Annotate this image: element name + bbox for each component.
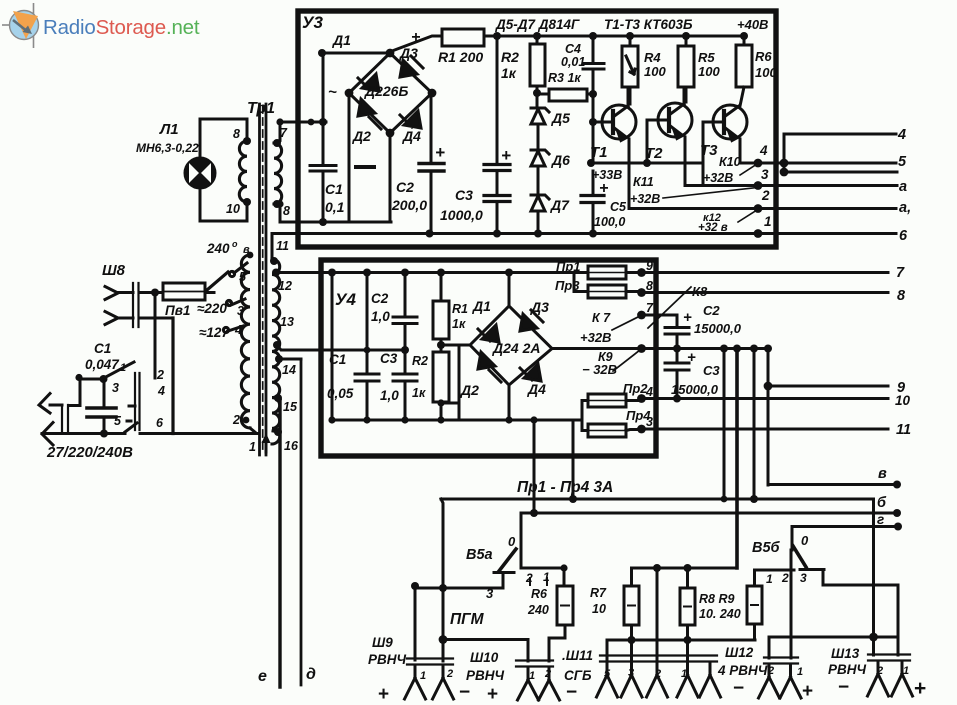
switch slant to 5 [125,423,137,432]
fuse Pr2 [588,394,626,407]
svg-text:о: о [232,239,238,249]
svg-text:240: 240 [527,603,549,617]
pointer K9 [613,350,640,371]
capacitor C2 1,0 [393,317,417,324]
svg-text:СГБ: СГБ [564,668,592,683]
svg-text:5: 5 [114,414,122,428]
junction dots bottom [530,509,538,517]
svg-text:5: 5 [239,270,247,284]
svg-text:е: е [258,668,267,685]
svg-text:Д7: Д7 [550,197,570,213]
connector Sh8 bars [133,283,139,327]
wire lamp loop [200,119,247,221]
svg-text:4: 4 [234,323,242,337]
svg-text:15000,0: 15000,0 [671,382,719,397]
svg-text:С2: С2 [371,291,389,306]
diode D2 [358,99,381,129]
svg-text:−: − [459,682,470,703]
svg-text:2: 2 [761,188,770,203]
connector Sh12 bar [764,658,798,664]
connector Sh9 forks [405,665,426,699]
svg-text:8: 8 [283,204,290,218]
pointer K12 [738,210,757,222]
svg-text:14: 14 [282,363,296,377]
wire R8 leads [686,568,689,660]
svg-text:Д6: Д6 [551,152,570,168]
svg-text:10. 240: 10. 240 [699,607,741,621]
svg-text:К 7: К 7 [592,311,611,325]
svg-text:10: 10 [895,393,911,408]
wire column a [331,273,334,421]
wire pin2 output a, [629,207,896,210]
svg-text:С1: С1 [329,352,346,367]
wire minus rail out [642,347,771,350]
lamp L1 [185,158,216,189]
svg-text:+: + [802,681,813,702]
wire B5b out [823,585,898,655]
connector Sh9 bar [407,659,453,665]
svg-text:11: 11 [276,239,289,253]
svg-text:~: ~ [328,84,337,101]
resistor R5 100 [678,46,694,87]
svg-text:К10: К10 [719,155,741,169]
switch B5a blade [499,549,516,571]
diode D1 U4 [478,325,499,342]
svg-text:МН6,3-0,22: МН6,3-0,22 [136,141,199,155]
svg-text:− 32В: − 32В [582,362,617,377]
bridge U3 diamond [349,53,432,133]
svg-text:Ш10: Ш10 [470,650,499,665]
diode D3 U4 [520,310,543,331]
svg-text:+: + [599,180,608,197]
svg-text:7: 7 [896,265,905,281]
svg-text:Д4: Д4 [527,381,546,397]
svg-text:+: + [501,146,511,165]
svg-text:1: 1 [120,362,126,374]
svg-text:−: − [733,678,744,699]
svg-text:В5б: В5б [752,540,781,556]
svg-text:R3 1к: R3 1к [548,71,581,85]
svg-text:7: 7 [646,301,654,315]
wire R6 bottom to Sh10 [549,625,565,661]
wire rail 513 [521,512,897,515]
wire B5a out [415,587,503,590]
wire out 9 [768,385,888,388]
connector Sh8 fork 1 [105,287,133,300]
wire pin7 to C2 [642,314,678,317]
switch B5a column [520,513,523,568]
svg-text:R5: R5 [698,50,715,65]
junction dots transformer/mains [243,137,251,145]
svg-text:6: 6 [899,228,908,244]
svg-text:2: 2 [525,571,533,585]
svg-text:100: 100 [698,64,720,79]
svg-text:Д4: Д4 [402,128,421,144]
svg-text:RadioStorage.net: RadioStorage.net [43,16,200,39]
connector Sh11 bar [600,656,717,662]
diode D4 U4 [520,364,541,381]
svg-text:+32В: +32В [630,192,660,206]
pointer K10 [740,164,757,175]
wire pin13 to U4 [277,345,405,350]
svg-text:1: 1 [903,665,909,677]
wire selector left column [154,293,157,379]
capacitor C2 15000,0 [665,315,689,334]
svg-text:R1: R1 [452,302,468,316]
resistor R7 10 [624,586,639,625]
wire return loop [441,345,459,420]
svg-text:Пр3: Пр3 [555,278,580,293]
wire bottom interior [332,419,582,422]
capacitor C5 100,0 [581,196,604,203]
svg-text:1к: 1к [412,386,426,400]
svg-text:Л1: Л1 [159,121,179,138]
switch B5a step [494,573,514,589]
svg-text:8: 8 [233,127,240,141]
svg-text:2: 2 [876,665,883,677]
svg-text:Д24 2А: Д24 2А [492,340,540,356]
wire zener chain [537,124,540,234]
switch B5b blade [793,546,806,567]
wire C3 column [496,36,499,234]
svg-text:R8 R9: R8 R9 [699,592,734,606]
wire bridge bottom out [508,385,511,420]
svg-text:16: 16 [284,439,299,453]
wire U4 lead down right [572,421,575,499]
transformer core [260,104,267,455]
svg-text:0,05: 0,05 [327,386,354,401]
svg-text:Ш13: Ш13 [831,646,860,661]
svg-text:Д226Б: Д226Б [364,83,408,99]
svg-text:РВНЧ: РВНЧ [466,668,505,683]
block U3 box [298,11,776,247]
wire pin7 to bridge [278,122,326,143]
svg-text:1к: 1к [452,317,466,331]
pointer K11 [663,188,757,199]
wire top rail +40V [484,35,744,38]
wire pin4/5 output [740,162,896,165]
svg-text:0,1: 0,1 [325,199,345,215]
wire C4 column / base line [592,36,595,234]
wire base rail +33V [591,162,700,165]
svg-text:100: 100 [644,64,666,79]
svg-text:−: − [838,677,849,698]
wire AC top [322,52,390,55]
svg-text:Д5-Д7 Д814Г: Д5-Д7 Д814Г [495,17,580,32]
svg-text:0,047: 0,047 [85,357,120,372]
svg-text:В5а: В5а [466,547,493,563]
wire fuse feed column [573,273,576,292]
svg-text:3: 3 [112,381,119,395]
wire U4 top rail [321,271,574,274]
resistor R6 100 [736,45,752,87]
svg-text:8: 8 [897,288,906,304]
svg-text:9: 9 [646,259,653,273]
svg-text:R6: R6 [755,49,772,64]
capacitor C3 1000,0 [484,165,510,202]
svg-text:Ш8: Ш8 [102,262,126,279]
svg-text:в: в [243,244,250,256]
wire bridge top to R1 [392,36,442,51]
svg-text:R7: R7 [590,586,607,600]
svg-text:100,0: 100,0 [594,215,625,229]
svg-text:в: в [878,466,887,482]
svg-text:б: б [877,495,887,511]
svg-text:Д2: Д2 [460,382,479,398]
mains connector bars [62,405,68,432]
svg-text:+32В: +32В [703,171,733,185]
svg-text:3: 3 [646,415,653,429]
svg-text:−: − [566,682,577,703]
wire Pr rail 499 [441,498,874,501]
wire 639 Sh9-Sh10 [443,640,528,662]
winding 8-10 primary lamp [239,141,247,202]
capacitor C2 200,0 [419,164,444,172]
connector Sh11 forks [597,662,618,697]
svg-text:Ш9: Ш9 [372,635,393,650]
svg-text:1к: 1к [501,65,517,81]
svg-text:7: 7 [280,126,288,140]
svg-text:а,: а, [899,200,911,216]
svg-text:≈220: ≈220 [197,301,227,316]
wire R9 leads [753,570,756,640]
svg-text:+32В: +32В [580,330,611,345]
capacitor C1 0,047 [103,379,106,434]
svg-text:+: + [687,349,696,366]
svg-text:С3: С3 [703,363,720,378]
switch slider bars [135,373,140,430]
svg-text:Т1: Т1 [590,144,608,161]
minus sign in bridge box [356,165,374,169]
svg-text:10: 10 [226,202,240,216]
winding secondary 11-16 lower right [272,259,280,444]
svg-text:Тр1: Тр1 [247,100,275,117]
junction dots U3 [318,49,326,57]
wire C1 column [322,53,325,222]
wire top rail 568 [632,567,738,570]
capacitor C1 0,1 [310,166,336,172]
wire T3 base [702,122,705,186]
svg-text:10: 10 [592,602,606,616]
svg-text:15: 15 [283,400,298,414]
selector blade [207,272,228,290]
svg-text:27/220/240В: 27/220/240В [46,444,133,461]
wire AC return bottom [278,204,391,222]
wire T2 base [646,120,649,163]
transistor T2 [658,103,692,137]
capacitor C3 15000,0 [665,349,689,371]
svg-text:0: 0 [801,533,809,548]
svg-text:R1 200: R1 200 [438,49,483,65]
wire Sh9 pin1 lead [414,586,417,660]
svg-text:У3: У3 [302,13,324,32]
switch slant to 1 [104,362,134,378]
svg-text:+: + [435,143,445,162]
pointer K8 [648,287,691,328]
transistor T1 [602,105,636,139]
svg-text:д: д [306,666,316,683]
connector Sh12 forks [759,664,780,698]
svg-text:4: 4 [645,385,653,399]
connector Sh13 bar [868,655,910,661]
svg-text:8: 8 [646,279,653,293]
svg-text:Т3: Т3 [700,142,718,159]
resistor R2 1k U4 [433,352,449,402]
resistor R6 240 [557,586,573,625]
wire pin3 out 11 [642,428,889,431]
resistor R1 1k U4 [433,301,449,339]
wire left drop to Sh9 [441,499,443,661]
resistor R9 240 [747,586,762,624]
svg-text:С3: С3 [455,187,473,203]
wire vertical v4 [768,349,897,486]
svg-text:1: 1 [766,572,773,586]
svg-text:РВНЧ: РВНЧ [828,662,867,677]
wire mid from pin13 [300,349,405,352]
svg-text:+40В: +40В [737,17,768,32]
block U4 box [321,260,656,456]
wire bridge bottom down [389,133,392,222]
svg-text:3: 3 [486,586,494,601]
svg-text:Д3: Д3 [399,45,418,61]
svg-text:Ш12: Ш12 [725,645,754,660]
bridge U4 diamond [470,306,552,385]
svg-text:1,0: 1,0 [371,309,390,324]
wire pin9 out [642,271,889,274]
wire bottom rail 640 [607,639,755,642]
svg-text:13: 13 [280,315,294,329]
svg-text:С2: С2 [703,303,720,318]
svg-text:4: 4 [759,143,768,158]
svg-text:Т1-Т3 КТ603Б: Т1-Т3 КТ603Б [604,17,693,32]
svg-text:1000,0: 1000,0 [440,207,483,223]
wire fuse feed [140,291,214,294]
svg-text:4: 4 [897,127,906,143]
svg-text:Д3: Д3 [530,299,549,315]
resistor R8 10 [680,588,695,625]
svg-text:С3: С3 [380,351,398,366]
svg-text:≈127: ≈127 [199,325,230,340]
svg-text:0: 0 [508,534,516,549]
svg-text:С4: С4 [565,42,581,56]
svg-text:100: 100 [755,65,777,80]
svg-text:С1: С1 [94,341,111,356]
pointer K7 [612,316,640,330]
svg-text:Пр1 - Пр4 3А: Пр1 - Пр4 3А [517,479,613,496]
wire e line [278,400,281,687]
capacitor C3 1,0 [393,374,417,381]
svg-text:+: + [914,677,926,700]
wire pin16 stub [273,431,280,432]
wire output short [784,171,897,174]
wire pin15 stub [277,398,280,400]
switch B5b column [791,527,792,659]
connector Sh8 fork 2 [105,312,133,325]
svg-text:+: + [683,309,692,326]
transistor T3 [713,105,747,139]
svg-text:Д1: Д1 [332,32,351,48]
svg-text:1: 1 [764,214,772,229]
fuse Pr3 [588,285,626,298]
wire pin4 out 10 [642,397,889,400]
wire R6 top link [521,568,564,586]
contact stubs 2 1 [530,578,547,585]
svg-text:.Ш11: .Ш11 [562,648,593,663]
mains arrow 1 [39,394,62,414]
switch B5b step [800,570,824,586]
winding primary taps lower left [241,255,250,428]
svg-text:1: 1 [420,670,426,682]
wire divider to bridge left [441,344,470,347]
svg-text:Пр2: Пр2 [623,381,648,396]
svg-text:2: 2 [544,668,551,680]
resistor R4 100 [622,46,638,87]
switch step contacts [127,406,135,421]
wire bridge top feed [508,273,511,307]
wire column C2/C3 [404,273,407,421]
wire pin3 output a [686,184,897,187]
capacitor C4 0,01 [583,64,604,70]
wire column C 0,05 [366,273,369,421]
diode D4 [400,111,421,128]
zener D5 [531,108,549,124]
wire pin12 to U4 rail [276,271,321,274]
winding 7-8 secondary upper [274,143,282,204]
svg-text:К8: К8 [692,284,708,299]
wire lower fuse column [581,401,584,431]
svg-text:5: 5 [898,154,907,170]
svg-text:11: 11 [896,422,911,438]
wire Sh11 pin5 lead [606,640,609,660]
wire right drop x872 [872,499,875,655]
wire C2 column [430,93,433,234]
svg-text:о: о [227,299,233,309]
svg-text:1: 1 [543,570,550,584]
svg-text:С5: С5 [610,200,627,214]
svg-text:Д5: Д5 [551,110,570,126]
wire B5b feed 526 [795,525,898,528]
svg-text:3: 3 [800,571,807,585]
svg-text:+: + [378,684,389,705]
svg-text:Пр1: Пр1 [556,259,581,274]
svg-text:1: 1 [249,440,256,454]
wire vertical v2 thick [735,349,739,569]
logo RadioStorage.net [2,3,200,48]
svg-text:0,01: 0,01 [561,55,585,69]
resistor R2 1k [536,36,539,107]
primary pin1 lead arrow [265,440,268,452]
svg-text:R2: R2 [412,354,428,368]
diode D3 [400,56,423,77]
svg-text:3: 3 [237,304,244,318]
svg-text:5: 5 [604,668,611,680]
wire bottom rail 0V [272,232,896,235]
wire d line [300,359,303,685]
svg-text:4 РВНЧ: 4 РВНЧ [717,663,768,678]
svg-text:К11: К11 [633,175,654,189]
svg-text:6: 6 [156,416,164,430]
fuse Pv1 [163,283,205,300]
svg-text:2: 2 [654,668,661,680]
svg-text:1: 1 [681,668,687,680]
svg-text:С1: С1 [325,181,343,197]
resistor R1 [442,29,484,46]
connector Sh13 forks [868,661,889,696]
svg-text:Д2: Д2 [352,128,371,144]
svg-text:4: 4 [157,384,165,398]
svg-text:3: 3 [761,167,769,182]
svg-text:+32 в: +32 в [698,222,728,234]
